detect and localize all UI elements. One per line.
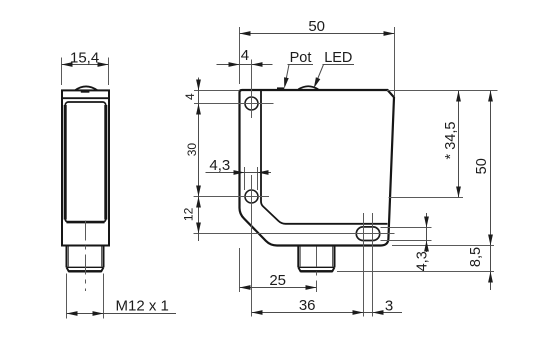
dim 4,3 left line	[206, 172, 272, 174]
front cap seam line	[62, 97, 109, 99]
side connector outer	[298, 246, 334, 271]
front lens window bottom edge	[67, 221, 105, 224]
dim 4 top extension line	[251, 60, 253, 89]
dim 15,4 line	[62, 64, 109, 66]
svg-text:15,4: 15,4	[70, 49, 99, 66]
dim M12x1 line	[67, 313, 177, 315]
front body outline	[62, 90, 109, 245]
body bottom right extension line	[392, 245, 494, 247]
Pot leader arrow	[282, 77, 289, 89]
dim 4,3 left arrows	[234, 170, 245, 175]
dim M12x1 arrows	[67, 311, 78, 316]
left chain extension lines	[194, 90, 240, 92]
LED underline + leader	[316, 65, 355, 85]
Pot underline + leader	[285, 65, 313, 86]
svg-text:3: 3	[385, 297, 393, 314]
side connector center line	[316, 247, 318, 293]
dim 50 right line	[490, 91, 492, 291]
svg-text:30: 30	[185, 143, 199, 157]
dim 4,3 right extension lines	[381, 228, 432, 241]
slot extension lines for dims 36 and 3	[364, 213, 373, 317]
svg-text:* 34,5: * 34,5	[443, 122, 459, 160]
svg-text:LED: LED	[324, 50, 352, 66]
connector bottom right extension line	[337, 271, 494, 273]
svg-text:25: 25	[269, 272, 286, 289]
dim 4 top arrows	[229, 62, 240, 67]
front top dome	[75, 86, 97, 90]
front lens window thick side edges	[65, 105, 106, 220]
svg-text:50: 50	[308, 18, 325, 35]
svg-text:4: 4	[183, 93, 197, 100]
svg-text:4,3: 4,3	[414, 251, 430, 271]
dim 3 arrow	[373, 310, 384, 315]
dim 8,5 bottom arrow	[488, 272, 493, 283]
dim M12x1 extension lines	[67, 274, 104, 319]
dim 4,3 hole tangent extension lines	[245, 167, 258, 190]
dim 25 left extension line	[239, 248, 241, 292]
front connector outer	[67, 246, 104, 271]
svg-text:M12 x 1: M12 x 1	[116, 297, 169, 314]
svg-text:Pot: Pot	[290, 50, 312, 66]
top edge right extension line	[387, 90, 498, 92]
dim 4 top line	[217, 64, 273, 66]
hole 1 center lines	[194, 60, 274, 119]
dim 4,3 right line	[426, 213, 428, 252]
front connector thread inner lines	[68, 247, 101, 268]
svg-text:8,5: 8,5	[468, 247, 484, 267]
svg-text:50: 50	[474, 158, 490, 174]
dim 50 right arrows	[488, 91, 493, 102]
LED dome	[298, 86, 318, 89]
dim 34,5 line	[458, 91, 460, 198]
front lens window	[65, 102, 106, 222]
front center line	[85, 221, 87, 292]
dim 34,5 bottom extension line	[389, 197, 464, 199]
LED leader arrow	[312, 77, 321, 89]
svg-text:12: 12	[182, 207, 196, 221]
mounting hole 1	[245, 97, 258, 110]
dim 36 arrows	[252, 310, 263, 315]
left chain dimension line	[198, 78, 200, 242]
side body outline	[240, 90, 395, 246]
svg-text:4: 4	[241, 47, 249, 64]
side connector thread inner lines	[300, 247, 332, 268]
dim 15,4 extension lines	[62, 58, 109, 86]
dim 15,4 arrows	[62, 62, 73, 67]
dim 34,5 arrows	[456, 91, 461, 102]
dim 36 line	[252, 312, 403, 314]
dim 4,3 right arrows	[424, 217, 429, 228]
dim 25 line	[240, 287, 317, 289]
svg-text:36: 36	[299, 297, 316, 314]
dim 50 top arrows	[240, 31, 251, 36]
dim 25 arrows	[240, 285, 251, 290]
left chain arrows	[196, 80, 201, 91]
hole 2 center lines	[194, 175, 269, 317]
slot center line	[194, 233, 395, 235]
dim 50 top extension lines	[240, 27, 395, 96]
slot (oblong hole)	[356, 227, 379, 241]
svg-text:4,3: 4,3	[209, 157, 230, 174]
pot bump	[277, 87, 284, 90]
side flange inner edge + step line	[261, 91, 388, 224]
front lens center bar	[81, 91, 90, 93]
dim 50 top line	[240, 33, 395, 35]
mounting hole 2	[245, 190, 258, 203]
